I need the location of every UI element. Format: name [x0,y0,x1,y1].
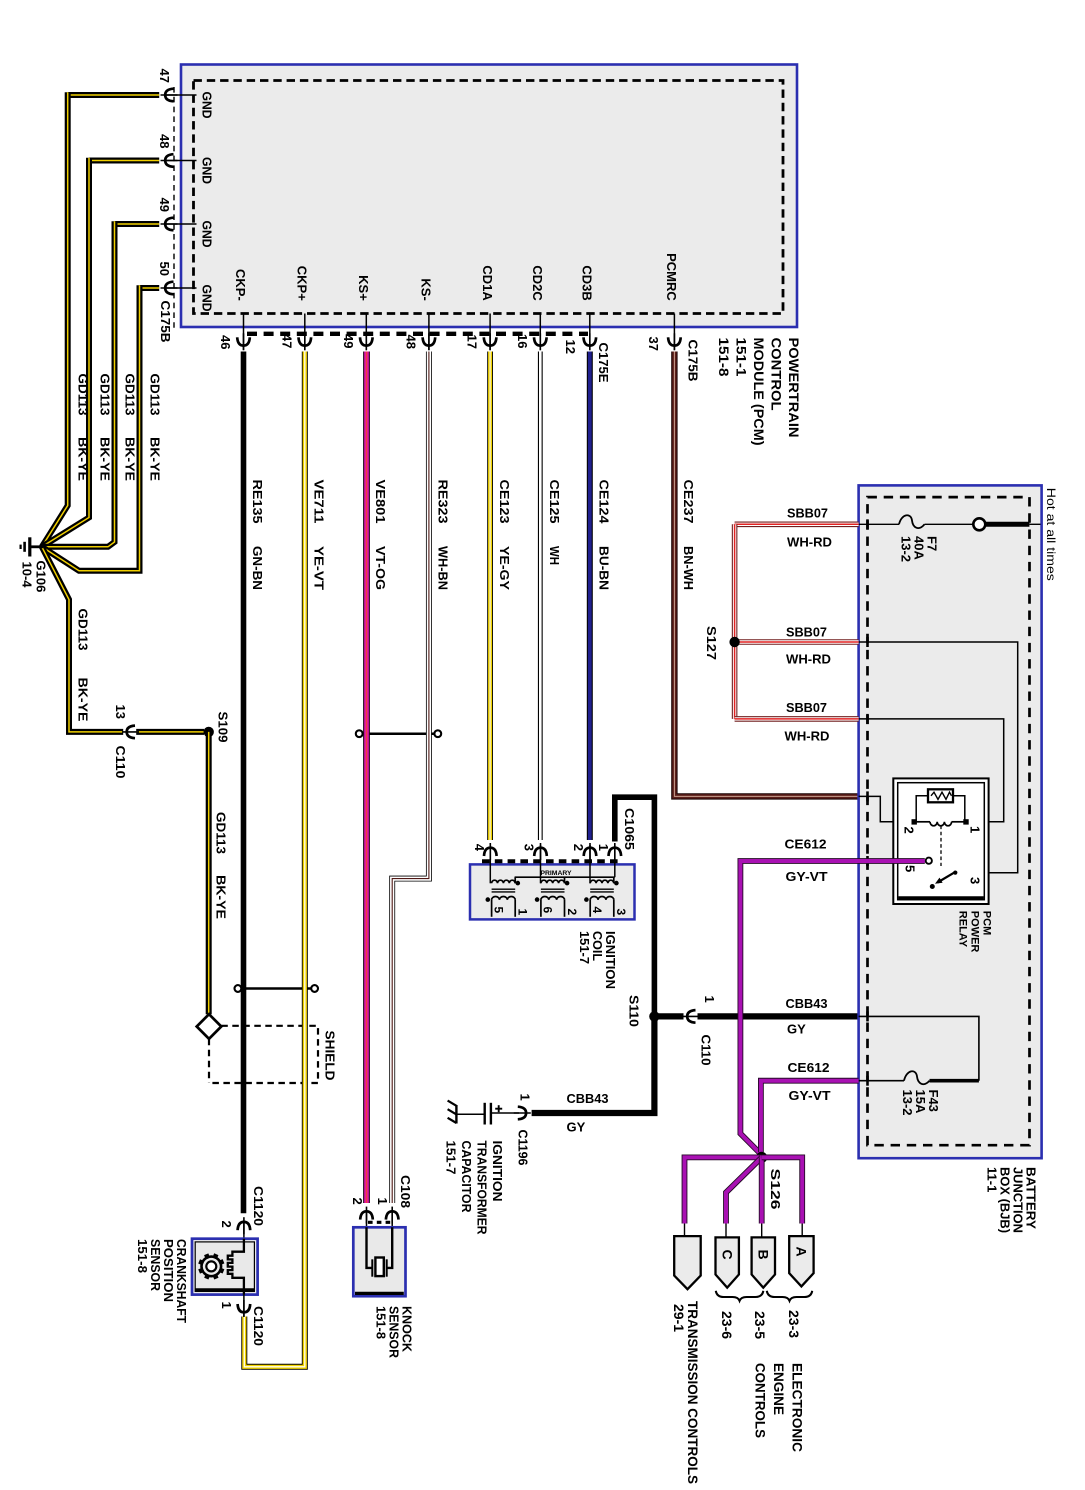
svg-text:C1120: C1120 [251,1186,266,1226]
svg-text:GND: GND [200,92,215,119]
svg-text:17: 17 [465,335,480,349]
svg-text:C175E: C175E [596,343,611,383]
svg-text:13: 13 [113,705,128,719]
svg-text:CKP+: CKP+ [295,266,310,301]
svg-text:47: 47 [157,69,172,83]
svg-text:1: 1 [516,909,530,916]
svg-text:B: B [756,1250,772,1260]
svg-text:37: 37 [646,337,661,351]
svg-text:S127: S127 [704,626,719,660]
svg-text:2: 2 [219,1221,234,1228]
svg-text:GY: GY [567,1120,586,1135]
svg-text:POWERTRAIN: POWERTRAIN [786,338,802,438]
svg-text:PRIMARY: PRIMARY [540,870,572,877]
svg-text:151-8: 151-8 [716,338,732,377]
svg-text:GND: GND [200,221,215,248]
svg-text:CBB43: CBB43 [786,996,828,1011]
svg-text:46: 46 [218,335,233,349]
svg-text:CE125: CE125 [547,480,562,524]
svg-text:CE124: CE124 [597,480,612,525]
svg-text:4: 4 [472,844,487,852]
svg-text:IGNITION: IGNITION [490,1141,505,1202]
svg-text:C175B: C175B [158,301,173,343]
svg-text:GND: GND [200,157,215,184]
svg-text:BK-YE: BK-YE [123,437,138,481]
svg-text:2: 2 [350,1198,365,1205]
svg-text:3: 3 [968,877,983,884]
svg-text:C1196: C1196 [516,1130,531,1166]
svg-text:23-6: 23-6 [719,1311,735,1339]
svg-text:48: 48 [403,335,418,349]
svg-text:KS+: KS+ [356,275,371,301]
svg-text:GD113: GD113 [76,609,91,651]
svg-text:5: 5 [491,907,505,914]
svg-text:WH: WH [547,546,562,565]
svg-text:CONTROL: CONTROL [769,338,785,411]
svg-text:SBB07: SBB07 [786,625,827,640]
svg-text:1: 1 [968,826,983,833]
svg-text:SBB07: SBB07 [787,506,828,521]
svg-text:BK-YE: BK-YE [98,437,113,481]
svg-text:C1120: C1120 [251,1306,266,1346]
svg-text:3: 3 [614,909,628,916]
svg-text:CONTROLS: CONTROLS [753,1363,769,1438]
svg-text:GD113: GD113 [76,374,91,416]
svg-text:RE135: RE135 [250,480,265,524]
svg-text:MODULE (PCM): MODULE (PCM) [751,338,767,446]
svg-text:BK-YE: BK-YE [76,678,91,722]
svg-text:13-2: 13-2 [898,536,913,562]
svg-text:2: 2 [571,844,586,851]
svg-text:11-1: 11-1 [985,1167,1000,1192]
svg-text:TRANSFORMER: TRANSFORMER [474,1141,489,1236]
svg-text:47: 47 [279,334,294,348]
svg-text:23-5: 23-5 [752,1311,768,1339]
svg-text:POWER: POWER [969,911,981,953]
svg-text:151-7: 151-7 [577,931,592,964]
svg-text:PCMRC: PCMRC [664,253,679,301]
svg-text:49: 49 [341,334,356,348]
svg-text:151-8: 151-8 [373,1306,388,1339]
svg-text:VE711: VE711 [312,480,327,524]
svg-text:GD113: GD113 [213,812,228,854]
svg-text:CE123: CE123 [497,480,512,524]
svg-text:Hot at all times: Hot at all times [1044,488,1058,581]
svg-text:1: 1 [702,996,717,1003]
svg-text:16: 16 [515,334,530,348]
svg-text:BK-YE: BK-YE [213,875,228,919]
svg-text:ENGINE: ENGINE [771,1363,787,1415]
svg-text:6: 6 [541,907,555,914]
svg-text:GD113: GD113 [98,374,113,416]
svg-text:C: C [720,1250,736,1260]
svg-text:C110: C110 [699,1035,714,1066]
svg-text:GN-BN: GN-BN [250,546,265,590]
svg-text:G106: G106 [33,561,48,593]
svg-text:GD113: GD113 [148,374,163,416]
svg-text:SHIELD: SHIELD [323,1031,338,1081]
svg-text:48: 48 [157,134,172,148]
svg-text:PCM: PCM [981,911,993,935]
svg-text:2: 2 [902,827,917,834]
svg-text:1: 1 [518,1094,533,1101]
svg-text:GY-VT: GY-VT [786,869,828,884]
svg-text:S110: S110 [627,995,642,1027]
svg-text:151-8: 151-8 [135,1239,150,1273]
svg-text:C1065: C1065 [622,808,637,850]
svg-text:CKP-: CKP- [233,269,248,301]
svg-text:50: 50 [157,262,172,276]
svg-text:49: 49 [157,198,172,212]
svg-text:S109: S109 [216,712,231,743]
svg-text:CAPACITOR: CAPACITOR [459,1141,474,1214]
svg-text:YE-VT: YE-VT [312,546,327,590]
svg-text:13-2: 13-2 [900,1090,915,1116]
svg-text:KS-: KS- [419,278,434,300]
svg-text:VT-OG: VT-OG [373,546,388,590]
svg-text:WH-RD: WH-RD [785,729,830,744]
svg-text:BK-YE: BK-YE [148,437,163,481]
svg-text:C108: C108 [398,1175,413,1208]
svg-text:5: 5 [903,865,918,872]
svg-text:RE323: RE323 [436,480,451,524]
svg-text:4: 4 [590,907,604,914]
svg-text:10-4: 10-4 [20,562,35,589]
svg-text:YE-GY: YE-GY [497,546,512,590]
svg-text:BU-BN: BU-BN [597,546,612,590]
svg-text:RELAY: RELAY [957,911,969,948]
svg-text:GD113: GD113 [123,374,138,416]
svg-text:1: 1 [375,1198,390,1205]
svg-text:VE801: VE801 [373,480,388,524]
svg-text:S126: S126 [768,1169,783,1210]
svg-text:151-1: 151-1 [734,338,750,377]
svg-text:CBB43: CBB43 [567,1091,609,1106]
svg-text:CE612: CE612 [788,1060,830,1075]
svg-text:WH-RD: WH-RD [786,652,831,667]
svg-text:151-7: 151-7 [443,1141,458,1175]
svg-text:1: 1 [596,844,611,851]
svg-text:WH-RD: WH-RD [787,535,832,550]
svg-text:BN-WH: BN-WH [681,546,696,590]
svg-text:CD1A: CD1A [480,265,495,301]
svg-text:CE612: CE612 [785,837,827,852]
svg-text:C175B: C175B [685,340,700,382]
svg-text:A: A [794,1247,810,1257]
svg-text:ELECTRONIC: ELECTRONIC [789,1363,805,1452]
svg-text:SBB07: SBB07 [786,700,827,715]
svg-text:GY: GY [787,1022,806,1037]
svg-text:1: 1 [219,1302,234,1309]
svg-text:23-3: 23-3 [786,1310,802,1338]
svg-text:GY-VT: GY-VT [789,1088,831,1103]
svg-text:2: 2 [565,909,579,916]
svg-text:12: 12 [563,340,578,354]
svg-text:CD3B: CD3B [580,265,595,300]
svg-text:BK-YE: BK-YE [76,437,91,481]
svg-text:CD2C: CD2C [530,265,545,301]
svg-text:3: 3 [522,844,537,851]
svg-text:WH-BN: WH-BN [436,546,451,590]
svg-text:29-1: 29-1 [671,1304,687,1332]
svg-text:C110: C110 [113,746,128,779]
svg-text:GND: GND [200,285,215,312]
svg-text:CE237: CE237 [681,480,696,524]
